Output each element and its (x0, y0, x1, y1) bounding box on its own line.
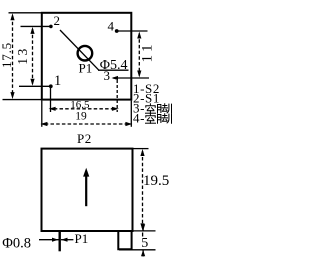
svg-text:1: 1 (54, 73, 61, 89)
svg-text:11: 11 (140, 41, 156, 62)
tab bottom extension right (119, 249, 156, 251)
center hole circle (78, 46, 93, 61)
mounting pin left (side view) (59, 232, 61, 251)
extension line pin3 column (116, 80, 118, 112)
winding direction arrow (85, 176, 87, 206)
pin 3 arrow marker (112, 76, 119, 80)
pin 1 dot (49, 84, 53, 88)
svg-text:5: 5 (141, 236, 148, 251)
extension line pin1 column (50, 86, 52, 112)
svg-text:13: 13 (15, 46, 30, 65)
glyph kong (149, 104, 151, 106)
svg-text:P1: P1 (79, 60, 93, 75)
top edge extension line left (9, 12, 42, 14)
hole label underline (98, 69, 129, 71)
transformer body front view outline (42, 149, 133, 231)
svg-text:Φ5.4: Φ5.4 (100, 58, 128, 73)
bottom edge extension line left (3, 99, 42, 101)
hole leader line diagonal (60, 30, 99, 70)
transformer body top view outline (42, 13, 132, 100)
svg-text:2: 2 (54, 13, 61, 28)
pin 4 dot (115, 29, 119, 33)
dimension 13 line (32, 29, 34, 84)
svg-text:Φ0.8: Φ0.8 (2, 235, 31, 251)
pin 2 leader wire (21, 25, 51, 27)
dimension 5 (142, 225, 144, 231)
svg-text:4-: 4- (133, 110, 145, 125)
svg-text:4: 4 (108, 18, 115, 33)
bottom edge extension right (134, 230, 156, 232)
glyph jiao (158, 105, 161, 114)
pin 2 dot (49, 25, 53, 29)
extension line right corner down (130, 101, 132, 127)
dimension 16.5 line (54, 108, 114, 110)
pin 4 leader wire (117, 30, 148, 32)
svg-text:P2: P2 (77, 131, 92, 146)
pin 1 leader wire (19, 85, 51, 87)
svg-text:19.5: 19.5 (143, 173, 169, 189)
dimension 19.5 line (142, 151, 144, 228)
svg-text:19: 19 (75, 111, 87, 123)
svg-text:P1: P1 (75, 231, 89, 246)
pin 3 leader wire (113, 77, 149, 79)
top edge extension right (134, 148, 149, 150)
dimension 17.5 line (12, 16, 14, 96)
dimension 19 line (45, 123, 128, 125)
svg-text:16.5: 16.5 (70, 99, 90, 111)
svg-text:17.5: 17.5 (0, 42, 14, 68)
extension line left corner down (41, 101, 43, 127)
dimension 11 line (138, 34, 140, 76)
pin tab bottom right (118, 232, 131, 249)
